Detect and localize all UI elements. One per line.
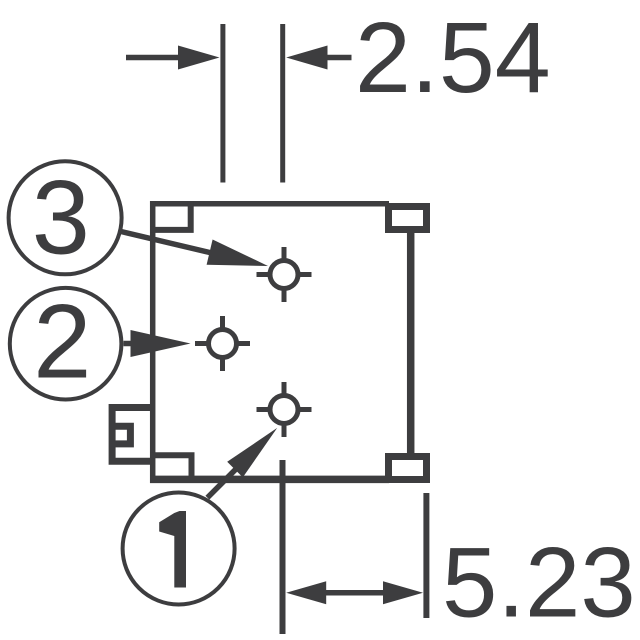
body bottom edge: [150, 476, 389, 484]
label circle 2: [10, 284, 122, 401]
body right edge: [407, 230, 415, 456]
pin 3 pad crosshair: [257, 247, 312, 302]
screw slot: [114, 426, 130, 444]
leader arrow to pin 3: [121, 232, 268, 267]
body top edge: [150, 201, 389, 207]
top dimension extension line right (pin1/3 column): [280, 24, 285, 183]
svg-text:2.54: 2.54: [355, 2, 551, 114]
pin 1 pad crosshair: [257, 382, 312, 437]
svg-text:3: 3: [32, 160, 90, 277]
top-left corner tab: [150, 201, 191, 230]
leader arrow to pin 1: [207, 428, 277, 498]
bottom-right corner tab: [389, 457, 427, 480]
pin 2 pad crosshair: [195, 316, 250, 371]
top dimension extension line left (pin2 column): [220, 24, 225, 183]
body left edge: [150, 201, 156, 483]
bottom-left corner tab: [150, 455, 192, 483]
bottom dimension double arrow: [286, 581, 423, 604]
top dimension left arrow: [126, 46, 220, 70]
svg-text:2: 2: [33, 284, 91, 401]
top dimension right arrow: [286, 46, 351, 70]
bottom dimension extension line left (pin 1 column): [280, 460, 286, 634]
label circle 1: [123, 493, 235, 605]
top-right corner tab: [389, 207, 427, 230]
svg-text:5.23: 5.23: [442, 528, 636, 639]
label circle 3: [9, 160, 122, 277]
bottom dimension extension line right (body right side): [423, 493, 429, 618]
leader arrow to pin 2: [124, 330, 191, 357]
screw notch outline: [112, 408, 152, 462]
